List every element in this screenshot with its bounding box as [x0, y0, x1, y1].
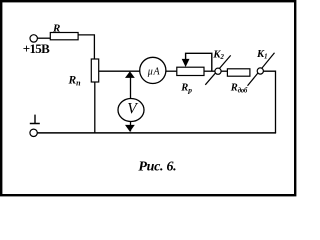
wire — [37, 37, 50, 39]
wire (wiper link) — [186, 53, 212, 71]
ground symbol — [30, 123, 40, 125]
arrow node to voltmeter — [125, 71, 135, 78]
arrow to ground rail — [125, 125, 135, 132]
wire — [166, 70, 177, 72]
wire — [130, 122, 132, 132]
wire — [78, 35, 94, 60]
voltmeter V — [118, 99, 144, 122]
wire — [263, 71, 275, 133]
terminal +15V — [30, 35, 37, 42]
rheostat Rр — [177, 67, 204, 75]
wire — [204, 70, 215, 72]
border frame — [1, 1, 295, 195]
wire — [221, 70, 228, 72]
svg-text:V: V — [127, 101, 138, 118]
svg-text:R: R — [52, 23, 60, 35]
wire — [130, 76, 132, 99]
wire — [94, 82, 96, 133]
wire (ground rail) — [37, 132, 276, 134]
microammeter μA — [140, 57, 166, 83]
potentiometer Rп — [91, 59, 98, 82]
switch K1 — [248, 53, 275, 86]
resistor R — [50, 33, 78, 40]
svg-text:Рис. 6.: Рис. 6. — [138, 160, 176, 175]
wire (wiper tap) — [99, 70, 140, 72]
rheostat wiper arrow — [182, 59, 190, 67]
terminal ground — [30, 129, 37, 136]
svg-text:+15В: +15В — [23, 41, 50, 56]
resistor Rдоб — [227, 69, 250, 76]
svg-text:μA: μA — [147, 67, 161, 78]
switch K2 — [205, 55, 230, 84]
